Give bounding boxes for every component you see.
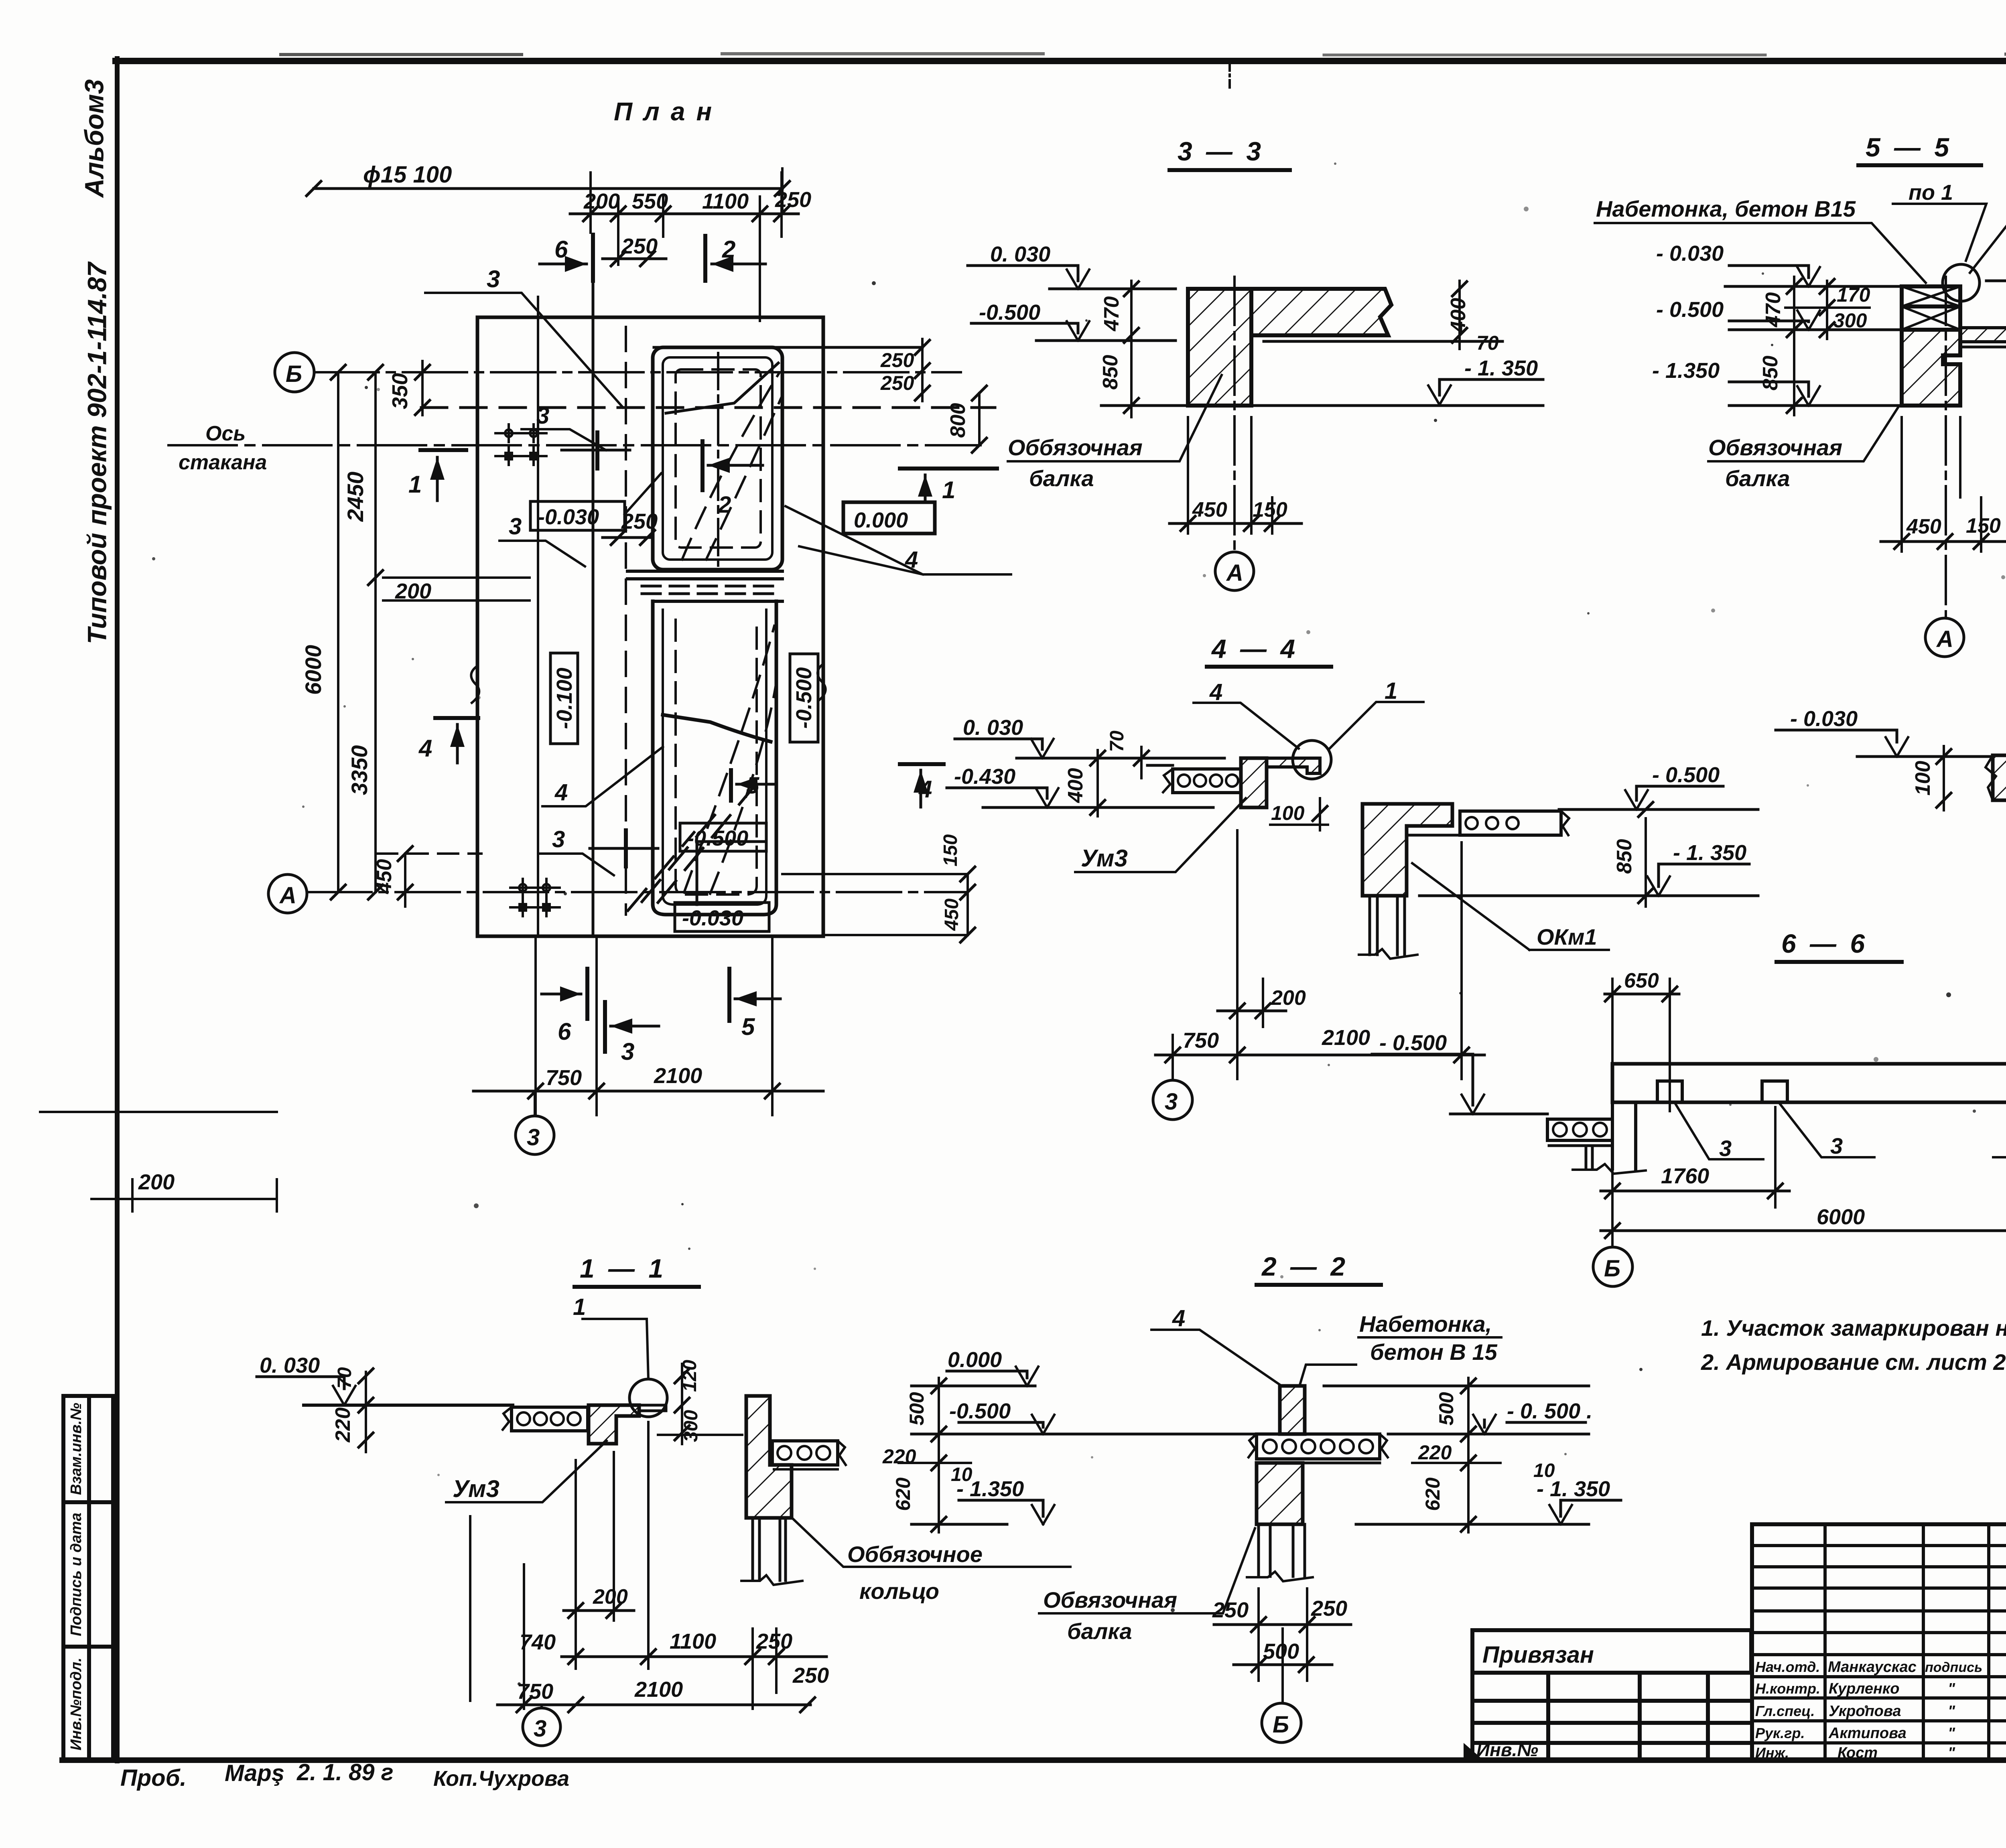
svg-text:0. 030: 0. 030 — [990, 242, 1050, 266]
title block middle columns grid — [1752, 1524, 2006, 1760]
section 2-2 circle B — [1262, 1703, 1301, 1743]
svg-text:200: 200 — [395, 579, 431, 603]
svg-text:620: 620 — [892, 1477, 914, 1511]
section 4-4 level -1.350 — [1419, 864, 1758, 896]
svg-text:250: 250 — [775, 188, 811, 212]
section 6-6 beam outline — [1612, 1064, 2006, 1102]
section 3-3 dim 70 text — [1476, 332, 1499, 354]
plan top dim phi15100 — [307, 168, 790, 213]
svg-text:Кост: Кост — [1837, 1745, 1878, 1761]
svg-text:250: 250 — [880, 349, 914, 371]
svg-text:1: 1 — [573, 1294, 586, 1320]
svg-text:2100: 2100 — [654, 1064, 702, 1088]
plan axis A circle — [268, 874, 307, 913]
plan label 3 lower — [552, 826, 565, 852]
section 3-3 beam label — [1008, 435, 1143, 491]
svg-text:200: 200 — [583, 189, 620, 213]
section 2-2 levels left — [912, 1367, 1256, 1524]
plan cut mark 3 lower — [590, 830, 658, 866]
svg-text:Коп.Чухрова: Коп.Чухрова — [433, 1767, 569, 1791]
svg-text:2100: 2100 — [1322, 1026, 1370, 1050]
svg-text:2: 2 — [722, 236, 735, 263]
svg-text:2: 2 — [718, 492, 731, 518]
svg-text:0.000: 0.000 — [854, 508, 908, 532]
section 2-2 bottom dims 250 250 500 — [1214, 1588, 1351, 1701]
section 3-3 slab ledge line 70 — [1264, 340, 1502, 343]
plan section cut 4 left — [435, 718, 478, 763]
svg-text:300: 300 — [1833, 309, 1867, 332]
title block privyazan text — [1464, 1642, 1594, 1761]
svg-text:Нач.отд.: Нач.отд. — [1755, 1659, 1820, 1675]
scan speckles — [152, 162, 2006, 1714]
plan upper glass outer wall — [653, 347, 782, 570]
plan right dim 800 — [972, 386, 987, 452]
svg-text:Актипова: Актипова — [1828, 1725, 1907, 1742]
section 5-5 detail circle — [1943, 264, 1980, 301]
section 1-1 floor slab line — [304, 1404, 513, 1407]
svg-text:Типовой проект 902-1-114.87: Типовой проект 902-1-114.87 — [82, 261, 112, 644]
svg-text:Ось: Ось — [205, 422, 246, 445]
svg-text:-0.030: -0.030 — [538, 505, 599, 529]
section 5-5 wall hatched lower — [1902, 330, 1960, 406]
svg-text:-0.500: -0.500 — [792, 667, 816, 728]
section 4-4 right wall hatched — [1362, 804, 1452, 896]
plan section cut 5 inner — [731, 770, 774, 801]
notes text — [1701, 1315, 2006, 1375]
svg-text:Марş: Марş — [225, 1760, 284, 1786]
svg-text:2 — 2: 2 — 2 — [1261, 1252, 1348, 1281]
plan label 3 top with leader — [487, 266, 500, 292]
svg-text:800: 800 — [946, 403, 970, 438]
svg-text:3350: 3350 — [347, 745, 372, 795]
svg-text:250: 250 — [1311, 1596, 1347, 1621]
svg-text:0.000: 0.000 — [948, 1348, 1002, 1372]
svg-text:Обвязочная: Обвязочная — [1708, 435, 1842, 460]
svg-text:4 — 4: 4 — 4 — [1211, 634, 1298, 663]
svg-text:1100: 1100 — [702, 189, 749, 213]
svg-text:250: 250 — [621, 509, 658, 534]
section 5-5 slab right — [1960, 328, 2006, 355]
section 1-1 right wall hatched — [746, 1396, 792, 1518]
section 5-5 po1 label — [1909, 181, 1953, 205]
title block outer — [1752, 1524, 2006, 1760]
detail slab hatched — [1993, 743, 2006, 800]
svg-text:-0.500: -0.500 — [949, 1399, 1011, 1423]
plan axis B line — [315, 371, 961, 373]
svg-text:500: 500 — [906, 1392, 928, 1426]
svg-text:470: 470 — [1100, 296, 1123, 332]
section 4-4 level -0.430 — [947, 788, 1213, 807]
svg-text:250: 250 — [756, 1629, 792, 1653]
plan section cut 2 top — [705, 236, 765, 281]
svg-text:120: 120 — [679, 1360, 700, 1392]
section 5-5 heading — [1866, 132, 1952, 162]
plan label 4 lower-left — [554, 779, 568, 805]
svg-text:3 — 3: 3 — 3 — [1178, 136, 1264, 166]
section 1-1 heading — [580, 1254, 666, 1283]
plan dim 250 mid — [603, 530, 655, 545]
section 6-6 heading — [1781, 929, 1868, 958]
section 5-5 wall with cross boxes — [1902, 286, 1960, 330]
svg-text:балка: балка — [1029, 466, 1094, 491]
svg-text:400: 400 — [1447, 298, 1470, 333]
svg-text:250: 250 — [880, 372, 914, 394]
plan upper glass dashed liner — [676, 369, 761, 548]
svg-text:Б: Б — [1273, 1712, 1289, 1738]
section 2-2 columns below — [1247, 1524, 1313, 1581]
section 1-1 right columns below — [741, 1518, 802, 1585]
section 1-1 dim 120 300 — [658, 1364, 742, 1444]
detail level -0.030 — [1776, 730, 1994, 757]
section 3-3 axis and circle A — [1233, 277, 1236, 551]
section 3-3 level -1.350 — [1101, 379, 1543, 406]
svg-text:-0.500: -0.500 — [979, 300, 1040, 325]
svg-text:-0.030: -0.030 — [682, 906, 743, 930]
section 4-4 dim 200 — [1218, 979, 1286, 1027]
plan bottom cut 5 — [729, 969, 780, 1021]
plan top sub dim 250 — [603, 252, 666, 266]
svg-text:1: 1 — [942, 477, 955, 503]
section 4-4 okm1 label — [1537, 924, 1597, 949]
svg-text:-0.430: -0.430 — [954, 765, 1015, 789]
plan left stray dim 200 — [40, 1112, 277, 1211]
svg-text:3: 3 — [1165, 1089, 1178, 1115]
svg-text:Инв.№подл.: Инв.№подл. — [68, 1657, 85, 1750]
svg-text:1. Участок замаркирован на ли: 1. Участок замаркирован на листе 15. — [1701, 1315, 2006, 1341]
svg-text:70: 70 — [334, 1367, 355, 1389]
plan upper glass inner wall — [663, 357, 772, 560]
svg-text:200: 200 — [593, 1585, 628, 1609]
svg-text:- 0.030: - 0.030 — [1656, 241, 1724, 266]
svg-text:": " — [1948, 1680, 1955, 1697]
svg-text:Привязан: Привязан — [1482, 1642, 1594, 1668]
plan left dim 350 — [415, 361, 430, 415]
svg-text:Гл.спец.: Гл.спец. — [1755, 1703, 1815, 1719]
section 1-1 dim 200 — [564, 1603, 634, 1618]
svg-text:4: 4 — [554, 779, 568, 805]
svg-text:": " — [1948, 1703, 1955, 1720]
plan upper chamber dashed arcs — [682, 373, 782, 560]
title block people rows text — [1755, 1659, 1982, 1761]
svg-text:- 1.350: - 1.350 — [1652, 359, 1720, 383]
svg-text:подпись: подпись — [1925, 1660, 1982, 1675]
svg-text:Оббязочное: Оббязочное — [847, 1542, 983, 1567]
section 6-6 stubs — [1657, 1081, 2006, 1102]
svg-text:200: 200 — [1271, 986, 1306, 1010]
section 4-4 heading — [1211, 634, 1298, 663]
plan title — [614, 97, 723, 126]
svg-text:100: 100 — [1271, 802, 1305, 824]
plan bottom cut 3 — [605, 1002, 659, 1052]
svg-text:Рук.гр.: Рук.гр. — [1755, 1725, 1805, 1741]
svg-text:400: 400 — [1064, 768, 1087, 803]
section 4-4 level 0.030 — [955, 739, 1224, 758]
left stamp column box — [63, 1396, 113, 1761]
plan section cut 4 right — [900, 764, 944, 807]
svg-text:500: 500 — [1263, 1639, 1299, 1663]
svg-text:300: 300 — [680, 1410, 702, 1442]
plan anchor bolts bottom — [510, 879, 560, 916]
frame top border — [116, 54, 2006, 61]
plan cut line 6-6 vertical — [592, 281, 595, 936]
svg-text:850: 850 — [1759, 356, 1782, 391]
section 3-3 level -0.500 — [971, 321, 1176, 341]
section 6-6 dim 1760 — [1601, 1107, 1789, 1207]
section 4-4 beam hatched — [1241, 758, 1267, 807]
svg-text:2450: 2450 — [343, 472, 368, 522]
section 2-2 hollow slab row — [1249, 1434, 1388, 1463]
plan left dim 200 small — [383, 578, 530, 600]
svg-text:3: 3 — [1719, 1136, 1732, 1161]
section 6-6 dim 650 — [1605, 979, 1679, 1111]
svg-text:3: 3 — [552, 826, 565, 852]
plan lower glass outer wall — [653, 601, 776, 915]
svg-text:Инж.: Инж. — [1755, 1745, 1789, 1761]
svg-text:750: 750 — [517, 1680, 553, 1704]
plan axis B circle — [275, 353, 314, 392]
svg-text:Оббязочная: Оббязочная — [1008, 435, 1143, 460]
svg-text:2. 1. 89 г: 2. 1. 89 г — [296, 1759, 394, 1785]
section 1-1 dims 740 1100 250 — [562, 1629, 826, 1709]
section 5-5 left dims 170 300 470 850 — [1785, 277, 1870, 415]
svg-text:4: 4 — [418, 735, 432, 762]
svg-text:Б: Б — [1604, 1256, 1620, 1282]
title block left small table — [1472, 1630, 1752, 1760]
plan glass axis label — [179, 422, 267, 474]
svg-text:1: 1 — [408, 471, 422, 498]
svg-text:Б: Б — [286, 361, 302, 387]
frame bottom border — [62, 1757, 2006, 1763]
section 4-4 um3 label — [1081, 845, 1128, 872]
bottom handwriting — [120, 1759, 569, 1791]
svg-text:450: 450 — [373, 859, 396, 895]
plan section cut 6 top — [540, 235, 593, 281]
plan upper chamber cone line — [666, 363, 778, 413]
svg-text:Инв.№: Инв.№ — [1476, 1739, 1538, 1760]
svg-text:550: 550 — [632, 189, 668, 213]
svg-text:- 0.030: - 0.030 — [1790, 707, 1858, 731]
svg-text:750: 750 — [546, 1066, 582, 1090]
section 1-1 level 0.030 — [257, 1377, 513, 1405]
svg-text:стакана: стакана — [179, 451, 267, 474]
plan boxed level -0.030 bottom — [675, 903, 769, 931]
section 4-4 dim 850 — [1639, 802, 1653, 907]
svg-text:450: 450 — [1192, 498, 1227, 521]
section 5-5 left levels — [1725, 266, 1902, 406]
svg-text:А: А — [1226, 560, 1243, 586]
svg-text:Ум3: Ум3 — [453, 1475, 499, 1502]
svg-text:150: 150 — [1966, 514, 2001, 538]
svg-text:0. 030: 0. 030 — [963, 716, 1023, 740]
svg-text:3: 3 — [487, 266, 500, 292]
svg-text:3: 3 — [527, 1124, 540, 1150]
plan section cut 1 left — [420, 450, 466, 501]
svg-text:4: 4 — [918, 776, 932, 803]
section 3-3 bottom dims 450 150 — [1169, 417, 1301, 534]
section 4-4 bottom dims 750 2100 — [1155, 830, 1484, 1079]
svg-text:1760: 1760 — [1661, 1164, 1709, 1188]
svg-text:А: А — [279, 882, 296, 909]
svg-text:1100: 1100 — [670, 1629, 716, 1653]
svg-text:4: 4 — [1209, 679, 1222, 705]
section 5-5 bottom dims 450 150 — [1881, 417, 2005, 552]
svg-text:70: 70 — [1476, 332, 1499, 354]
section 1-1 right hollow slab — [772, 1441, 846, 1469]
svg-text:2100: 2100 — [634, 1678, 683, 1702]
svg-text:620: 620 — [1421, 1477, 1444, 1511]
section 6-6 dim 6000 — [1601, 1171, 2006, 1246]
section 3-3 wall hatched — [1188, 289, 1251, 406]
svg-text:- 0.500: - 0.500 — [1652, 763, 1720, 787]
plan label 3 mid2 — [509, 513, 522, 540]
svg-text:2. Армирование см. лист 20.: 2. Армирование см. лист 20. — [1701, 1349, 2006, 1375]
svg-text:- 0. 500 .: - 0. 500 . — [1507, 1399, 1592, 1423]
svg-text:Укропова: Укропова — [1829, 1703, 1901, 1720]
plan lower chamber dashed pipe arcs — [684, 626, 776, 894]
plan left break squiggle — [471, 666, 479, 703]
section 5-5 axis and circle A — [1945, 277, 1947, 618]
svg-text:5: 5 — [746, 773, 759, 799]
plan label 4 right with leaders — [905, 547, 918, 573]
plan anchor bolts top — [495, 424, 546, 465]
section 1-1 dims 750 2100 — [497, 1564, 815, 1712]
plan top dim chain 200 550 1100 250 — [570, 172, 798, 321]
plan right dim 250 250 — [915, 339, 930, 401]
svg-text:Н.контр.: Н.контр. — [1755, 1680, 1820, 1697]
plan bottom dims 750 2100 — [473, 936, 823, 1115]
svg-text:1: 1 — [1385, 678, 1397, 704]
section 1-1 label 1 — [573, 1294, 586, 1320]
section 4-4 dim 70 — [1134, 747, 1149, 778]
svg-text:10: 10 — [951, 1464, 973, 1485]
section 4-4 level -0.500 right — [1559, 786, 1758, 809]
svg-text:Набетонка,: Набетонка, — [1359, 1311, 1492, 1337]
section 3-3 left dim 470 850 — [1124, 281, 1139, 417]
svg-text:150: 150 — [1253, 498, 1287, 521]
section 6-6 left support wall — [1573, 1102, 1646, 1174]
plan lower glass inner wall — [663, 610, 766, 905]
section 4-4 um3 slab — [1267, 758, 1320, 773]
svg-text:220: 220 — [331, 1408, 355, 1443]
plan section cut 2 inner — [703, 441, 763, 490]
svg-text:Манкаускас: Манкаускас — [1828, 1659, 1917, 1676]
svg-text:5 — 5: 5 — 5 — [1866, 132, 1952, 162]
svg-text:балка: балка — [1725, 466, 1790, 491]
plan axis A line — [307, 891, 968, 893]
plan left dim 450 lower — [377, 846, 481, 907]
section 4-4 hollow core slab left — [1147, 765, 1241, 793]
frame left border — [115, 59, 120, 1761]
svg-text:3: 3 — [1830, 1133, 1843, 1158]
svg-text:70: 70 — [1107, 730, 1128, 752]
svg-text:250: 250 — [792, 1663, 829, 1688]
svg-text:- 1. 350: - 1. 350 — [1673, 841, 1746, 865]
section 6-6 level -0.500 left — [1372, 1054, 1547, 1114]
svg-text:470: 470 — [1762, 292, 1785, 328]
plan right break squiggle — [818, 664, 826, 700]
section 4-4 label 1 — [1385, 678, 1397, 704]
svg-text:6: 6 — [554, 236, 568, 263]
plan dashed wall line — [625, 327, 627, 915]
plan bottom circle 3 — [516, 1091, 554, 1154]
section 6-6 circle B — [1593, 1247, 1632, 1286]
svg-text:Набетонка, бетон В15: Набетонка, бетон В15 — [1596, 196, 1856, 221]
svg-text:850: 850 — [1613, 839, 1636, 874]
svg-text:3: 3 — [621, 1038, 634, 1065]
svg-text:- 1. 350: - 1. 350 — [1464, 356, 1538, 380]
plan right dim 150 450 — [782, 867, 975, 942]
svg-text:750: 750 — [1183, 1028, 1219, 1053]
plan middle beam band — [627, 571, 782, 601]
section 4-4 detail circle — [1293, 740, 1331, 779]
svg-text:Подпись и дата: Подпись и дата — [68, 1513, 85, 1636]
svg-text:ϕ15 100: ϕ15 100 — [363, 162, 452, 188]
svg-text:4: 4 — [1172, 1305, 1185, 1331]
svg-text:450: 450 — [941, 899, 962, 931]
svg-text:250: 250 — [621, 234, 658, 258]
section 1-1 um3 label — [453, 1475, 499, 1502]
svg-text:Ум3: Ум3 — [1081, 845, 1128, 872]
plan section cut 1 right — [900, 469, 997, 501]
svg-text:220: 220 — [882, 1445, 916, 1468]
section 1-1 hollow core slab — [503, 1407, 588, 1431]
plan boxed level -0.100 rotated — [550, 653, 578, 744]
detail slab break — [1986, 755, 1996, 800]
plan boxed level -0.500 rotated right — [790, 654, 818, 742]
top fold mark — [1228, 60, 1231, 87]
svg-text:- 0.500: - 0.500 — [1379, 1031, 1447, 1055]
left margin rotated text: album — [79, 79, 109, 199]
section 1-1 beam hatched — [589, 1405, 639, 1444]
left margin rotated text: project name — [82, 261, 112, 644]
svg-text:Курленко: Курленко — [1829, 1680, 1899, 1697]
plan lower chamber water curve — [663, 715, 771, 742]
section 2-2 lower wall hatched — [1257, 1463, 1303, 1524]
svg-text:ОКм1: ОКм1 — [1537, 924, 1597, 949]
svg-text:6 — 6: 6 — 6 — [1781, 929, 1868, 958]
section 4-4 columns below — [1359, 896, 1417, 959]
section 4-4 dim 400 — [1090, 750, 1105, 816]
plan bottom cut 6 — [542, 969, 587, 1019]
plan witness vertical left — [537, 297, 539, 936]
detail dim 100 — [1937, 746, 1951, 810]
plan leader from -0.030 box — [625, 473, 661, 514]
svg-text:6000: 6000 — [300, 645, 326, 695]
svg-text:150: 150 — [940, 834, 961, 866]
svg-text:0. 030: 0. 030 — [260, 1353, 320, 1377]
svg-text:100: 100 — [1911, 761, 1935, 796]
section 4-4 right hollow slab — [1407, 811, 1569, 835]
section 6-6 left hollow slab — [1547, 1119, 1612, 1169]
plan outer tank pit wall rectangle — [477, 317, 823, 936]
section 5-5 beam label — [1708, 435, 1842, 491]
section 5-5 level -0.010 — [1986, 262, 2006, 281]
plan lower chamber door opening — [697, 842, 765, 905]
section 1-1 witness verticals bottom — [470, 1422, 648, 1701]
svg-text:6000: 6000 — [1817, 1205, 1865, 1229]
svg-text:": " — [1948, 1725, 1955, 1742]
section 4-4 circle 3 — [1153, 1080, 1192, 1120]
svg-text:3: 3 — [536, 403, 549, 429]
svg-text:Проб.: Проб. — [120, 1765, 187, 1791]
svg-text:650: 650 — [1624, 969, 1659, 992]
svg-text:500: 500 — [1435, 1392, 1458, 1426]
section 3-3 dim 400 — [1452, 281, 1467, 349]
svg-text:6: 6 — [558, 1018, 571, 1045]
section 1-1 dim 70 220 — [359, 1369, 373, 1452]
svg-text:балка: балка — [1067, 1619, 1132, 1644]
plan boxed level 0.000 right — [843, 502, 935, 534]
